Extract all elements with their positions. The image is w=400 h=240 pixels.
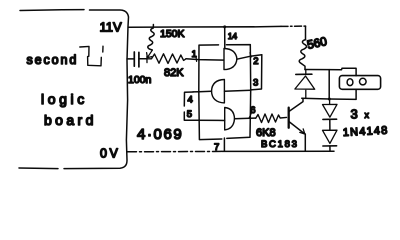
svg-text:board: board <box>44 112 97 128</box>
wire pin 7 <box>223 138 225 151</box>
inverter gate G2 (left-facing) <box>212 80 225 103</box>
diode D3 <box>323 130 338 143</box>
svg-text:150K: 150K <box>160 28 185 40</box>
diode D1 <box>295 70 315 99</box>
diode D2 cathode bar <box>323 118 337 120</box>
diode D3 bottom lead <box>329 146 331 151</box>
svg-text:6K8: 6K8 <box>256 127 276 139</box>
svg-text:logic: logic <box>41 91 88 107</box>
diode D3 cathode bar <box>323 145 337 147</box>
wire pin 14 <box>224 27 226 48</box>
svg-text:3: 3 <box>351 107 358 122</box>
inverter gate G3 <box>225 108 235 130</box>
svg-text:second: second <box>27 53 79 67</box>
resistor 560 <box>299 40 306 70</box>
svg-text:2: 2 <box>253 56 258 67</box>
transistor Q1 BC183 base bar <box>288 108 290 128</box>
diode D2 <box>323 99 338 117</box>
IC 4069 box <box>199 45 251 140</box>
transistor collector <box>289 98 303 111</box>
svg-text:14: 14 <box>228 31 238 41</box>
pin 6 tick <box>249 113 251 118</box>
logic board outline <box>19 10 129 169</box>
wire pin 3 inside <box>225 89 251 92</box>
emitter arrowhead <box>300 129 305 134</box>
junction dot B <box>328 98 331 101</box>
wire B connector to collector <box>302 90 356 100</box>
node junction tick <box>146 56 148 62</box>
capacitor 100n left lead <box>127 58 134 60</box>
wire bottom rail dash-dot <box>128 150 223 152</box>
svg-text:4·069: 4·069 <box>137 126 183 143</box>
svg-text:3: 3 <box>253 78 258 89</box>
potentiometer 150K <box>148 25 154 51</box>
svg-text:1N4148: 1N4148 <box>343 125 389 139</box>
svg-text:560: 560 <box>306 34 329 52</box>
pulse waveform symbol <box>80 46 103 66</box>
svg-text:82K: 82K <box>164 67 184 79</box>
connector pin circle right <box>360 78 367 85</box>
connector pin circle left <box>347 79 353 86</box>
wire to pin 1 <box>186 59 224 60</box>
svg-text:0V: 0V <box>100 147 121 161</box>
pin 1 tick <box>195 57 198 62</box>
wire A node to connector <box>305 68 356 76</box>
wire bottom rail solid <box>222 150 334 152</box>
wire pin 4 out <box>193 90 212 93</box>
svg-text:4: 4 <box>188 95 193 106</box>
capacitor 100n right lead <box>139 58 147 60</box>
pin4-pin5 bracket <box>184 92 195 120</box>
svg-text:x: x <box>365 110 370 120</box>
junction dot rail pin14 <box>223 25 226 28</box>
svg-text:11V: 11V <box>100 20 122 35</box>
pin 2 tick <box>250 53 251 57</box>
potentiometer wiper arrow <box>147 50 153 57</box>
resistor 6K8 <box>256 114 287 123</box>
wire top rail dash-dot <box>281 25 306 27</box>
wire pin2 to pin3 vertical <box>251 55 262 90</box>
svg-text:5: 5 <box>187 109 192 120</box>
wire top rail <box>129 25 282 28</box>
wire 560 top lead <box>305 26 307 39</box>
capacitor 100n plates <box>134 52 139 67</box>
transistor emitter <box>289 121 306 151</box>
svg-text:BC183: BC183 <box>261 139 299 150</box>
inverter gate G1 <box>224 49 237 70</box>
wire pin 5 <box>196 119 225 121</box>
diode D1 cathode bar <box>296 73 312 75</box>
diode D2-D3 lead <box>329 120 331 131</box>
connector box <box>339 76 380 90</box>
wire pin 6 out <box>235 117 256 120</box>
wire link A to B <box>328 70 330 99</box>
svg-text:100n: 100n <box>128 74 152 86</box>
wire pin 2 out <box>237 55 262 59</box>
resistor 82K <box>147 54 186 64</box>
